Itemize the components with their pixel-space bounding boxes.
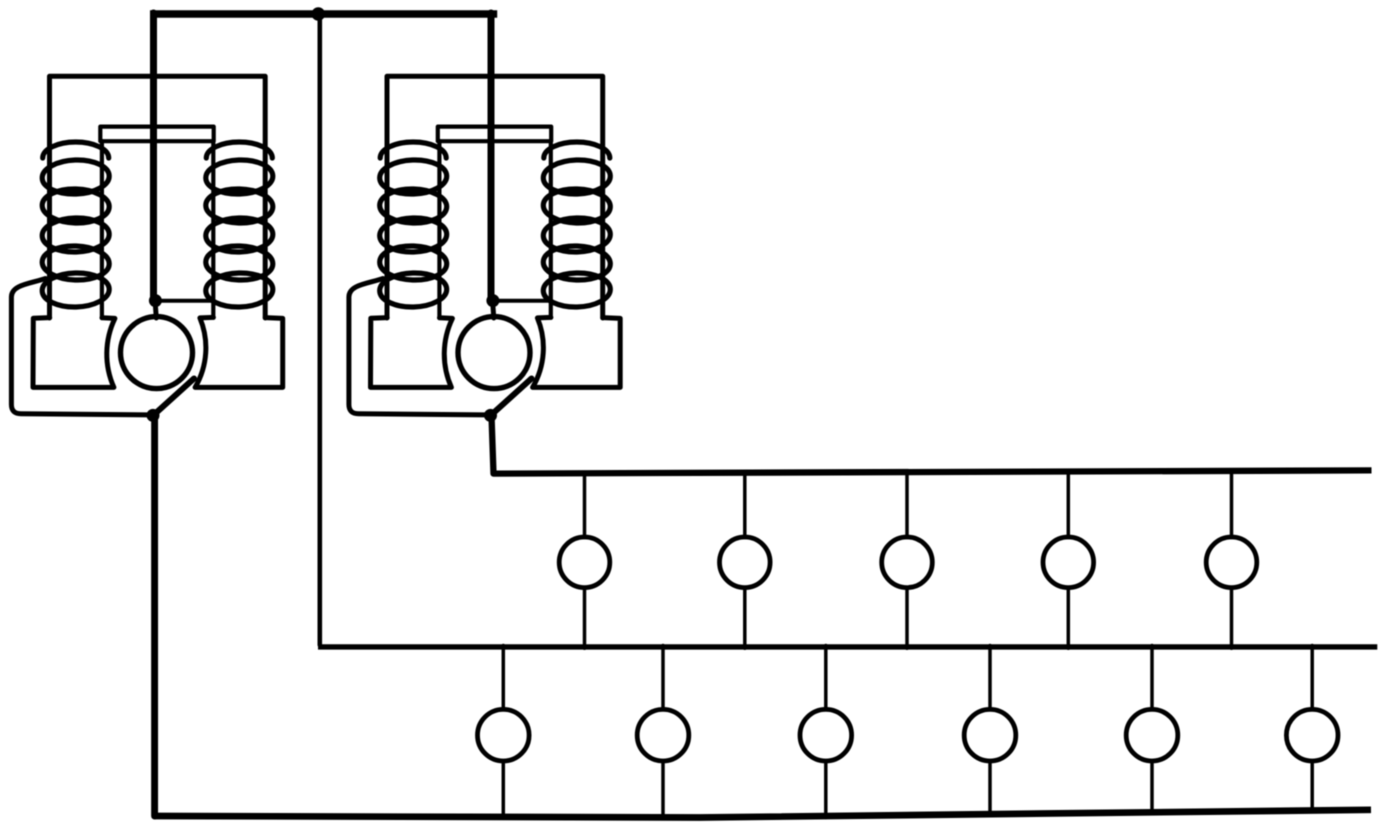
lamp B1 lead — [502, 646, 506, 818]
relay unit 1 (polarized electromagnet with ball armature) — [11, 13, 282, 422]
lamp A4 — [1043, 537, 1094, 588]
relay 2 output wire and bus B1 — [492, 416, 1372, 474]
lamp A2 — [720, 537, 771, 588]
lamp A3 — [882, 537, 933, 588]
armature ball — [121, 317, 193, 389]
lamp A4 lead — [1067, 471, 1071, 649]
lamp B5 lead — [1150, 646, 1154, 814]
lamp A5 lead — [1230, 470, 1234, 648]
armature arm — [153, 379, 194, 416]
inner winding loop wire — [100, 127, 213, 142]
node top junction — [312, 7, 326, 21]
inner loop left lead — [100, 141, 104, 318]
lamp A1 — [559, 537, 610, 588]
coil L2 (right winding) — [205, 142, 273, 308]
lamp B1 — [478, 709, 530, 761]
lamp A5 — [1206, 537, 1257, 588]
ball stem wire — [155, 300, 156, 318]
coil L1 (left winding) — [42, 142, 110, 308]
outer winding loop wire — [50, 76, 266, 318]
left pole shoe — [33, 318, 115, 388]
relay 1 output wire to bottom bus — [151, 415, 158, 816]
lamp B3 — [800, 709, 852, 761]
return wire (left side) — [11, 279, 148, 415]
bottom bus wire — [154, 810, 1371, 818]
lamp B6 lead — [1310, 646, 1314, 812]
node J1 — [149, 294, 162, 307]
lamp A3 lead — [905, 471, 909, 648]
center feeder wire — [317, 11, 322, 645]
wire J1 to right coil — [155, 299, 213, 303]
lamp A2 lead — [743, 472, 747, 649]
lamp B2 — [637, 709, 689, 761]
feeder wire from top bus — [150, 13, 157, 301]
inner loop right lead — [211, 141, 215, 318]
relay unit 2 — [349, 13, 620, 422]
lamp B5 — [1126, 709, 1178, 761]
lamp B6 — [1286, 709, 1338, 761]
lamp B2 lead — [661, 646, 665, 818]
node J2 — [147, 409, 160, 422]
right pole shoe — [195, 317, 283, 387]
lamp B4 — [964, 709, 1016, 761]
bus B2 wire — [318, 644, 1377, 649]
lamp A1 lead — [583, 472, 587, 648]
lamp B4 lead — [988, 646, 992, 816]
lamp B3 lead — [824, 646, 828, 818]
top bus wire — [150, 10, 497, 18]
